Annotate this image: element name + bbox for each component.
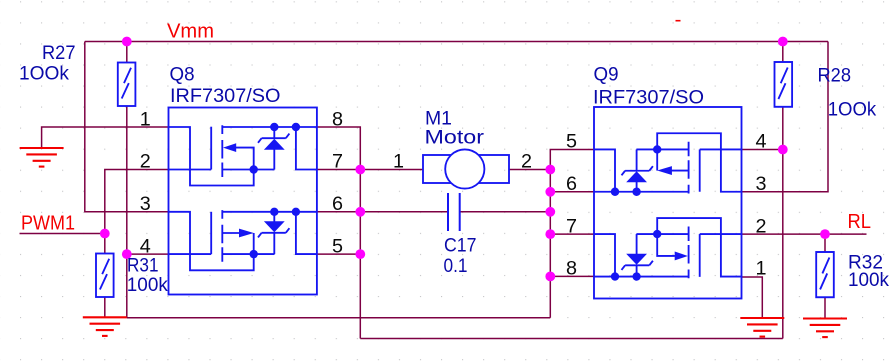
ground symbol under Q9 pin 1 <box>740 318 784 337</box>
wire Q8 pin 5 stub <box>317 253 360 255</box>
svg-text:6: 6 <box>332 193 343 215</box>
wire Q8 pin 8 to right vertical <box>317 127 360 339</box>
wire R27 bottom to Q8 pin 4 junction <box>126 106 128 254</box>
resistor R28 <box>775 62 793 107</box>
svg-text:5: 5 <box>332 235 343 257</box>
wire Q9 pin 8 stub <box>550 275 594 277</box>
wire Q8 pin 6 to C17 left plate <box>317 211 448 213</box>
resistor R31 <box>96 254 114 298</box>
junction dot Q9 pin4-R28 <box>778 145 788 155</box>
wire R31 bottom to ground <box>104 297 106 317</box>
junction dot Q9 pin7 <box>545 229 555 239</box>
svg-text:2: 2 <box>140 151 151 173</box>
junction dot RL-R32 <box>820 229 830 239</box>
svg-text:1OOk: 1OOk <box>828 99 877 121</box>
svg-text:8: 8 <box>332 108 343 130</box>
wire Vmm left drop to Q8 pin 3 <box>85 42 169 212</box>
motor M1 body rectangle <box>423 155 509 183</box>
wire Vmm to R28 top <box>782 42 784 63</box>
wire Vmm to R27 top <box>126 42 128 63</box>
svg-text:PWM1: PWM1 <box>21 213 75 235</box>
svg-text:100k: 100k <box>127 274 168 296</box>
svg-text:0.1: 0.1 <box>444 255 468 277</box>
wire Q9 pin 1 down to ground <box>742 277 763 318</box>
wire bottom rail B <box>360 338 783 340</box>
wire Q9 pin 7 stub <box>550 233 594 235</box>
svg-text:1: 1 <box>140 108 151 130</box>
junction dot PWM1-R31 <box>100 229 110 239</box>
svg-text:2: 2 <box>756 215 767 237</box>
svg-text:4: 4 <box>756 131 767 153</box>
svg-text:5: 5 <box>566 131 577 153</box>
wire motor terminal 2 to Q9 vertical <box>509 169 550 171</box>
svg-text:7: 7 <box>332 151 343 173</box>
svg-text:6: 6 <box>566 173 577 195</box>
junction dot Vmm-R28 <box>778 37 788 47</box>
junction dot Vmm-R27 <box>122 37 132 47</box>
svg-text:100k: 100k <box>848 269 889 291</box>
svg-text:8: 8 <box>566 258 577 280</box>
ground symbol left (at Q8 pin 1) <box>20 148 64 167</box>
svg-text:3: 3 <box>140 193 151 215</box>
svg-text:IRF7307/SO: IRF7307/SO <box>593 87 704 109</box>
wire bottom rail A <box>127 317 551 319</box>
wire Vmm horizontal rail <box>85 41 828 43</box>
junction dot Q9 pin8 <box>545 272 555 282</box>
junction dot Q8 pin7-motor1 <box>355 165 365 175</box>
svg-text:IRF7307/SO: IRF7307/SO <box>170 85 281 107</box>
svg-text:C17: C17 <box>444 235 477 257</box>
junction dot motor2 <box>545 165 555 175</box>
wire Q8 pin 7 to motor terminal 1 <box>317 169 423 171</box>
svg-text:4: 4 <box>140 235 151 257</box>
transistor Q8 internal dual MOSFET graphics <box>169 123 317 270</box>
svg-text:Vmm: Vmm <box>167 21 214 43</box>
wire RL junction down to R32 <box>824 234 826 252</box>
junction dot Q8 pin6-C17 <box>355 207 365 217</box>
svg-text:2: 2 <box>521 151 532 173</box>
ground symbol under R31 <box>83 317 127 336</box>
stray red dash mark near top <box>676 20 681 22</box>
wire Q8 pin 4 stub <box>127 253 169 255</box>
wire rail B up to Q9 pin 4 junction <box>782 150 784 339</box>
transistor Q9 internal dual MOSFET graphics (mirrored copy) <box>594 133 742 281</box>
wire PWM1 junction up and to Q8 pin 2 <box>105 170 169 234</box>
capacitor C17 plates <box>448 193 460 231</box>
wire Q9 pin 4 stub <box>742 149 783 151</box>
wire PWM1 to junction <box>20 233 105 235</box>
junction dot Q9 pin6 <box>545 187 555 197</box>
ground symbol under R32 <box>803 319 847 338</box>
wire R32 bottom to ground <box>824 298 826 319</box>
wire Q8 pin 4 junction down to bottom rail A <box>126 254 128 318</box>
junction dot Q8 pin5 <box>355 249 365 259</box>
wire PWM1 junction down to R31 <box>104 234 106 254</box>
wire Q9 pin 2 to RL with R32 junction <box>742 233 867 235</box>
wire C17 right plate to Q9 vertical <box>460 211 551 213</box>
junction dot Q8 pin4-R27 <box>122 249 132 259</box>
wire Q9 pin 6 stub <box>550 191 594 193</box>
svg-text:3: 3 <box>756 173 767 195</box>
svg-text:1: 1 <box>756 258 767 280</box>
svg-text:7: 7 <box>566 215 577 237</box>
junction dot C17 right <box>545 207 555 217</box>
svg-text:1: 1 <box>393 151 404 173</box>
IC body Q9 IRF7307/SO box <box>594 107 742 299</box>
motor M1 rotor circle <box>445 149 484 188</box>
wire ground to Q8 pin 1 <box>42 127 169 148</box>
wire Vmm right drop to Q9 pin 3 <box>742 42 829 192</box>
svg-text:1OOk: 1OOk <box>19 63 69 85</box>
wire rail A up right side to Q9 pin 5 corner <box>550 150 594 318</box>
resistor R32 <box>816 252 834 297</box>
resistor R27 <box>118 63 136 107</box>
svg-text:Q9: Q9 <box>594 64 619 86</box>
svg-text:Q8: Q8 <box>170 64 195 86</box>
wire R28 bottom to Q9 pin 4 junction <box>782 107 784 150</box>
svg-text:RL: RL <box>848 211 872 233</box>
svg-text:R27: R27 <box>42 42 76 64</box>
svg-text:Motor: Motor <box>425 127 485 149</box>
IC body Q8 IRF7307/SO box <box>169 108 317 295</box>
svg-text:R28: R28 <box>818 65 852 87</box>
